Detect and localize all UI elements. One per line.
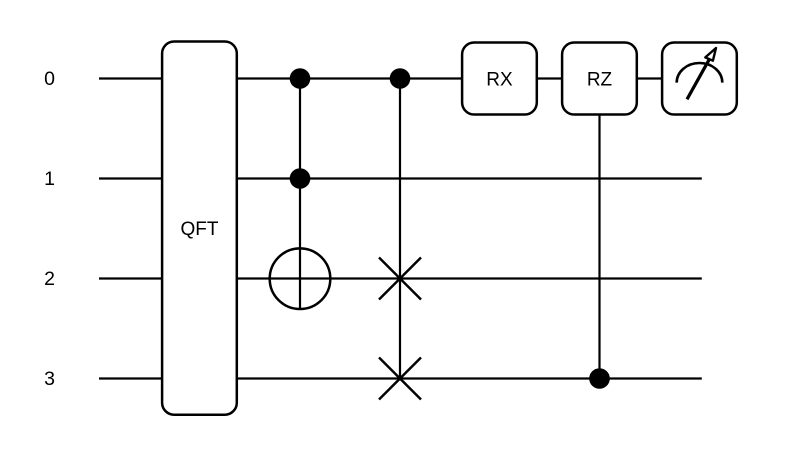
wire label 3 <box>44 368 55 390</box>
svg-text:RZ: RZ <box>587 69 613 90</box>
svg-text:3: 3 <box>44 368 55 390</box>
measurement gate q0 <box>662 43 737 115</box>
svg-text:RX: RX <box>486 69 513 90</box>
Toffoli control dot q0 <box>290 68 311 89</box>
wire label 1 <box>44 168 55 190</box>
svg-text:0: 0 <box>44 68 55 90</box>
wire label 0 <box>44 68 55 90</box>
gate QFT (multi-qubit box, wires 0-3) <box>162 42 237 415</box>
svg-text:1: 1 <box>44 168 55 190</box>
CSWAP vertical connector (wire 0 to wire 3) <box>399 79 401 379</box>
CSWAP swap cross q3 <box>379 358 421 400</box>
gate RZ q0 <box>562 43 637 115</box>
CRZ control dot q3 <box>589 368 610 389</box>
wire q2 <box>99 277 702 279</box>
wire q0 <box>99 77 702 79</box>
svg-text:QFT: QFT <box>181 219 219 240</box>
svg-text:2: 2 <box>44 268 55 290</box>
Toffoli control dot q1 <box>290 168 311 189</box>
Toffoli target circle q2 <box>270 248 331 309</box>
wire q3 <box>99 377 702 379</box>
gate RX q0 <box>462 43 537 115</box>
CSWAP control dot q0 <box>390 68 411 89</box>
CRZ vertical connector (RZ box to wire 3) <box>598 115 600 379</box>
wire label 2 <box>44 268 55 290</box>
Toffoli vertical connector (wire 0 to target bottom) <box>299 79 301 310</box>
wire q1 <box>99 177 702 179</box>
CSWAP swap cross q2 <box>379 258 421 300</box>
